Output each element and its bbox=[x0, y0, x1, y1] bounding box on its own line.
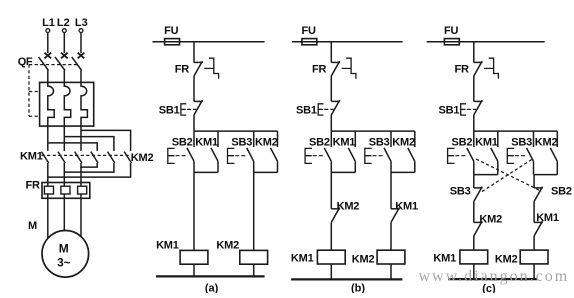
coil KM2 circuit (a) bbox=[240, 250, 268, 264]
svg-text:M: M bbox=[59, 242, 69, 256]
pushbutton SB3 actuator circuit (b) bbox=[365, 148, 384, 163]
pushbutton SB2 actuator circuit (b) bbox=[305, 148, 324, 163]
svg-text:KM1: KM1 bbox=[156, 239, 179, 251]
svg-text:FU: FU bbox=[164, 25, 179, 37]
thermal contact FR NC circuit (b) bbox=[331, 58, 356, 78]
wire main drop upper circuit (b) bbox=[330, 42, 332, 63]
coil KM1 circuit (c) bbox=[460, 250, 488, 264]
svg-text:KM2: KM2 bbox=[495, 253, 518, 265]
thermal relay FR heater elements bbox=[44, 186, 86, 194]
svg-text:SB3: SB3 bbox=[231, 136, 252, 148]
svg-text:SB3: SB3 bbox=[450, 186, 471, 198]
fuse FU circuit (c) bbox=[444, 39, 459, 45]
wire branch1 down circuit (c) bbox=[473, 175, 475, 188]
pushbutton SB3 NO circuit (b) bbox=[384, 131, 391, 172]
pushbutton SB1 NC stop circuit (c) bbox=[461, 100, 483, 115]
svg-text:SB3: SB3 bbox=[511, 136, 532, 148]
wire branch top rail circuit (b) bbox=[331, 130, 415, 132]
svg-text:L3: L3 bbox=[75, 17, 88, 29]
wire SB1 to branch rail circuit (a) bbox=[193, 115, 195, 131]
breaker QF contact X marks bbox=[45, 53, 85, 59]
wire L3 to QF bbox=[80, 33, 82, 54]
svg-text:KM2: KM2 bbox=[352, 253, 375, 265]
wire KM outputs merge W phase bbox=[81, 163, 97, 167]
wire phase L2 QF to KM contacts bbox=[64, 126, 114, 151]
wire to coil KM1 circuit (a) bbox=[193, 172, 195, 250]
wire branch top rail circuit (c) bbox=[474, 130, 558, 132]
coil KM2 circuit (b) bbox=[377, 250, 405, 264]
contactor KM1 main contacts bbox=[41, 152, 82, 163]
svg-text:KM1: KM1 bbox=[20, 151, 43, 163]
svg-text:FU: FU bbox=[444, 25, 459, 37]
wire coil KM1 to bottom rail circuit (c) bbox=[473, 264, 475, 279]
contact KM2 aux NO circuit (c) bbox=[550, 131, 557, 175]
coil KM1 circuit (b) bbox=[317, 250, 345, 264]
svg-text:SB2: SB2 bbox=[551, 186, 572, 198]
svg-text:KM1: KM1 bbox=[291, 252, 314, 264]
svg-text:KM2: KM2 bbox=[392, 136, 415, 148]
contact KM2 interlock NC circuit (b) bbox=[331, 208, 340, 223]
svg-text:M: M bbox=[28, 220, 37, 232]
coil KM2 circuit (c) bbox=[520, 250, 548, 264]
wire to coil KM2 circuit (a) bbox=[253, 172, 255, 250]
wire branch2 down circuit (c) bbox=[533, 175, 535, 188]
wire branch2 junction circuit (a) bbox=[254, 171, 278, 173]
contactor KM2 main contacts bbox=[91, 152, 132, 163]
wire FR to SB1 circuit (c) bbox=[473, 76, 475, 101]
terminal L1 bbox=[46, 29, 50, 33]
wire to coil KM1 circuit (c) bbox=[473, 236, 475, 250]
pushbutton SB1 NC stop circuit (b) bbox=[318, 100, 340, 115]
contact KM2 interlock NC circuit (c) bbox=[474, 221, 483, 236]
svg-text:FR: FR bbox=[312, 63, 327, 75]
wire control bus circuit (b) bbox=[292, 41, 403, 43]
svg-text:SB1: SB1 bbox=[438, 105, 459, 117]
wire branch2 junction circuit (c) bbox=[534, 174, 558, 176]
wire FR to motor bbox=[48, 194, 81, 242]
svg-text:FU: FU bbox=[301, 25, 316, 37]
svg-text:www.diangon.com: www.diangon.com bbox=[419, 268, 570, 285]
wire FR to SB1 circuit (a) bbox=[193, 76, 195, 101]
svg-text:FR: FR bbox=[455, 63, 470, 75]
contact KM1 aux NO circuit (a) bbox=[211, 131, 218, 172]
svg-text:KM2: KM2 bbox=[337, 201, 360, 213]
wire main drop upper circuit (a) bbox=[193, 42, 195, 63]
terminal L3 bbox=[79, 29, 83, 33]
svg-text:SB1: SB1 bbox=[159, 105, 180, 117]
svg-text:SB2: SB2 bbox=[172, 136, 193, 148]
pushbutton SB3 NO circuit (c) bbox=[527, 131, 534, 175]
svg-text:QF: QF bbox=[18, 56, 33, 68]
coil KM1 circuit (a) bbox=[180, 250, 208, 264]
svg-text:L2: L2 bbox=[57, 17, 70, 29]
wire bottom rail circuit (a) bbox=[156, 275, 265, 277]
svg-text:SB3: SB3 bbox=[369, 136, 390, 148]
svg-text:SB2: SB2 bbox=[309, 136, 330, 148]
wire SB1 to branch rail circuit (b) bbox=[330, 115, 332, 131]
wire coil KM1 to bottom rail circuit (a) bbox=[193, 264, 195, 276]
pushbutton SB2 actuator circuit (a) bbox=[168, 148, 187, 163]
svg-text:(b): (b) bbox=[351, 283, 365, 293]
wire coil KM2 to bottom rail circuit (b) bbox=[390, 264, 392, 279]
pushbutton SB3 actuator circuit (a) bbox=[228, 148, 247, 163]
wire branch1 junction circuit (a) bbox=[194, 171, 218, 173]
thermal contact FR NC circuit (a) bbox=[194, 58, 219, 78]
contact KM2 aux NO circuit (b) bbox=[408, 131, 415, 172]
wire bottom rail circuit (c) bbox=[448, 278, 537, 280]
motor M 3-phase bbox=[42, 231, 89, 278]
pushbutton SB3 NO circuit (a) bbox=[247, 131, 254, 172]
wire coil KM1 to bottom rail circuit (b) bbox=[330, 264, 332, 279]
wire FR to SB1 circuit (b) bbox=[330, 76, 332, 101]
fuse FU circuit (b) bbox=[302, 39, 317, 45]
breaker QF trip unit box bbox=[40, 82, 94, 126]
wire SB1 to branch rail circuit (c) bbox=[473, 115, 475, 131]
wire branch2 junction circuit (b) bbox=[391, 171, 415, 173]
wire KM outputs merge U phase bbox=[48, 163, 131, 177]
wire interlock to coil KM2 circuit (b) bbox=[390, 222, 392, 250]
linkage dashed SB2 to SB2 NC circuit (c) bbox=[476, 159, 542, 191]
wire to coil KM2 circuit (c) bbox=[533, 236, 535, 250]
thermal relay FR box bbox=[42, 183, 90, 199]
pushbutton SB1 NC stop circuit (a) bbox=[181, 100, 203, 115]
contact KM1 aux NO circuit (b) bbox=[348, 131, 355, 172]
svg-text:SB1: SB1 bbox=[296, 105, 317, 117]
svg-text:KM1: KM1 bbox=[195, 136, 218, 148]
contact KM1 interlock NC circuit (b) bbox=[391, 208, 400, 223]
wire coil KM2 to bottom rail circuit (a) bbox=[253, 264, 255, 276]
wire phase L1 QF to KM contacts bbox=[48, 126, 97, 151]
svg-text:KM2: KM2 bbox=[131, 152, 154, 164]
pushbutton SB2 actuator circuit (c) bbox=[448, 148, 467, 163]
svg-text:L1: L1 bbox=[42, 17, 55, 29]
svg-text:KM1: KM1 bbox=[475, 136, 498, 148]
svg-text:SB2: SB2 bbox=[451, 136, 472, 148]
wire bottom rail circuit (b) bbox=[291, 278, 402, 280]
svg-text:KM2: KM2 bbox=[216, 239, 239, 251]
svg-text:FR: FR bbox=[26, 180, 41, 192]
svg-text:KM1: KM1 bbox=[395, 201, 418, 213]
svg-text:3~: 3~ bbox=[57, 258, 70, 270]
wire branch1 to interlock circuit (b) bbox=[330, 172, 332, 208]
terminal L2 bbox=[62, 29, 66, 33]
wire phase L3 QF to KM contacts bbox=[81, 126, 131, 151]
pushbutton SB3 actuator circuit (c) bbox=[507, 148, 526, 163]
contactor linkage dashed KM1-KM2 bbox=[42, 154, 130, 156]
pushbutton SB2 NO circuit (c) bbox=[467, 131, 474, 175]
contact KM1 aux NO circuit (c) bbox=[491, 131, 498, 175]
svg-text:FR: FR bbox=[175, 63, 190, 75]
wire branch1 junction circuit (b) bbox=[331, 171, 355, 173]
wire L2 to QF bbox=[63, 33, 65, 54]
breaker QF trip elements bbox=[48, 82, 88, 126]
svg-text:KM2: KM2 bbox=[535, 136, 558, 148]
pushbutton SB2 NC contact circuit (c) bbox=[534, 187, 543, 202]
svg-text:(a): (a) bbox=[205, 283, 219, 293]
wire to KM2 interlock circuit (c) bbox=[473, 202, 475, 223]
contact KM2 aux NO circuit (a) bbox=[271, 131, 278, 172]
svg-text:KM1: KM1 bbox=[433, 252, 456, 264]
pushbutton SB3 NC contact circuit (c) bbox=[474, 187, 483, 202]
wire control bus circuit (a) bbox=[152, 41, 264, 43]
wire interlock to coil KM1 circuit (b) bbox=[330, 222, 332, 250]
svg-text:KM1: KM1 bbox=[333, 136, 356, 148]
wire main drop upper circuit (c) bbox=[473, 42, 475, 63]
wire branch1 junction circuit (c) bbox=[474, 174, 498, 176]
fuse FU circuit (a) bbox=[165, 39, 180, 45]
linkage dashed SB3 to SB3 NC circuit (c) bbox=[481, 160, 532, 193]
contact KM1 interlock NC circuit (c) bbox=[534, 221, 543, 236]
wire to KM1 interlock circuit (c) bbox=[533, 202, 535, 223]
wire control bus circuit (c) bbox=[427, 41, 545, 43]
wire branch top rail circuit (a) bbox=[194, 130, 278, 132]
pushbutton SB2 NO circuit (a) bbox=[187, 131, 194, 172]
breaker QF mechanical linkage dashed bbox=[29, 65, 78, 117]
wire branch2 to interlock circuit (b) bbox=[390, 172, 392, 208]
svg-text:KM2: KM2 bbox=[479, 213, 502, 225]
wire L1 to QF bbox=[47, 33, 49, 54]
pushbutton SB2 NO circuit (b) bbox=[324, 131, 331, 172]
thermal contact FR NC circuit (c) bbox=[474, 58, 499, 78]
wire coil KM2 to bottom rail circuit (c) bbox=[533, 264, 535, 279]
svg-text:KM2: KM2 bbox=[255, 136, 278, 148]
breaker QF blades bbox=[39, 57, 82, 83]
wire ties to FR bbox=[48, 167, 81, 186]
wire KM outputs merge V phase bbox=[64, 163, 114, 172]
